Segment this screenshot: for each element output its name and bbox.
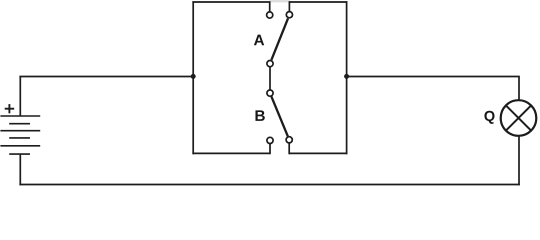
wire: link between switch A common and switch B common — [269, 67, 271, 90]
battery plus label — [5, 104, 15, 113]
wire: box right edge — [346, 1, 348, 154]
wire: stub from top edge to switch A left throw — [269, 1, 271, 12]
wire: box bottom edge left segment — [192, 152, 270, 154]
label A — [254, 35, 264, 46]
switch A left throw contact — [267, 12, 273, 18]
battery cell 1 positive plate (long) — [0, 115, 40, 117]
battery cell 2 positive plate (long) — [0, 130, 40, 132]
node: junction dot on box right edge — [344, 74, 349, 79]
node: junction dot on box left edge — [191, 74, 196, 79]
wire: battery negative lead (vertical) — [19, 154, 21, 185]
battery cell 3 negative plate (short) — [9, 153, 30, 155]
wire: box top edge bridge (faint) between switch A throw stubs — [270, 0, 290, 2]
wire: bottom return wire — [19, 184, 519, 186]
wire: left horizontal from battery to box — [19, 76, 193, 78]
wire: right horizontal from box to lamp — [347, 76, 520, 78]
switch B left throw contact — [267, 137, 273, 143]
wire: box top edge right segment — [289, 1, 347, 3]
wire: stub from switch B left throw to bottom edge — [269, 144, 271, 155]
lamp Q cross stroke 1 — [506, 105, 531, 130]
wire: box bottom edge right segment — [289, 152, 348, 154]
switch B blade (common to right throw) — [271, 96, 288, 137]
wire: stub from top edge to switch A right throw — [288, 1, 290, 11]
battery cell 1 negative plate (short) — [9, 123, 30, 125]
label B — [255, 110, 264, 121]
wire: box top edge left segment — [192, 1, 270, 3]
lamp Q cross stroke 2 — [506, 105, 531, 130]
switch A blade (common to right throw) — [271, 18, 288, 60]
label Q — [484, 111, 494, 124]
wire: box left edge — [192, 1, 194, 154]
battery cell 3 positive plate (long) — [0, 145, 40, 147]
switch B right throw contact — [286, 137, 292, 143]
wire: lamp bottom lead (vertical) — [518, 136, 520, 186]
wire: battery positive lead (vertical) — [19, 77, 21, 116]
switch B common contact — [267, 90, 273, 96]
battery cell 2 negative plate (short) — [9, 137, 30, 139]
wire: stub from switch B right throw to bottom edge — [288, 143, 290, 154]
switch A common contact — [267, 61, 273, 67]
wire: lamp top lead (vertical) — [518, 77, 520, 101]
switch A right throw contact — [286, 12, 292, 18]
lamp Q body — [501, 100, 537, 136]
